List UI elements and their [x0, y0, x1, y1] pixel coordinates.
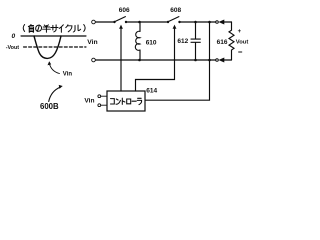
kanji 半 [43, 25, 51, 33]
svg-text:610: 610 [146, 40, 157, 47]
output terminal bottom [216, 59, 219, 62]
kana イ [59, 25, 63, 33]
svg-text:Vin: Vin [63, 72, 73, 78]
svg-text:-Vout: -Vout [6, 45, 20, 51]
bottom rail [95, 59, 215, 61]
sense wire to controller [145, 22, 210, 100]
control line to switch 606 [120, 28, 122, 91]
svg-text:Vin: Vin [87, 39, 97, 46]
svg-text:Vout: Vout [236, 39, 249, 45]
node inductor bottom [138, 59, 141, 62]
current arrow top [219, 20, 225, 25]
svg-text:616: 616 [217, 39, 228, 46]
node sense tap top [208, 21, 211, 24]
svg-text:614: 614 [146, 88, 157, 95]
svg-text:+: + [238, 29, 242, 35]
label minus [239, 51, 242, 53]
-Vout dashed level line [24, 46, 87, 48]
svg-text:600B: 600B [40, 102, 59, 111]
ロ [127, 99, 131, 104]
node sense tap bottom [208, 59, 211, 62]
ラ [137, 98, 141, 104]
switch 608 [167, 21, 169, 23]
kanji 負 [28, 25, 33, 33]
controller input terminal lower [98, 104, 101, 107]
Vin pointer arrow [49, 64, 59, 74]
node capacitor top [194, 21, 197, 24]
controller input terminal upper [98, 95, 101, 98]
resistor 616 [229, 22, 234, 60]
control line to switch 608 [136, 28, 175, 91]
paren ) [84, 25, 85, 32]
ー [132, 100, 136, 102]
kana ル [73, 25, 80, 32]
svg-text:Vin: Vin [84, 98, 94, 105]
600B arrow [49, 87, 61, 102]
controller text コントローラ [111, 98, 142, 104]
コ [111, 99, 115, 104]
node inductor top [138, 21, 141, 24]
input terminal bottom [92, 58, 96, 62]
wire to load top corner [223, 21, 232, 23]
capacitor 612 [195, 22, 197, 39]
inductor 610 [139, 22, 141, 31]
input terminal top [92, 20, 96, 24]
paren ( [23, 25, 24, 32]
zero axis line [21, 35, 86, 37]
wire ctrl input lower [101, 104, 107, 106]
wire ctrl input upper [101, 95, 107, 97]
svg-text:612: 612 [177, 38, 188, 45]
output terminal top [216, 21, 219, 24]
kana サ [51, 25, 58, 32]
node capacitor bottom [194, 59, 197, 62]
kana の [36, 25, 42, 32]
svg-text:608: 608 [170, 7, 181, 14]
controller box 614 [107, 91, 145, 111]
kana ク [66, 25, 72, 32]
ト [122, 98, 125, 104]
waveform title (負の半サイクル) [23, 25, 85, 33]
ン [116, 99, 120, 104]
wire top rail right [181, 21, 216, 23]
switch 606 [113, 21, 115, 23]
svg-text:0: 0 [12, 33, 16, 40]
current arrow bottom [219, 58, 225, 63]
Vin half-cycle curve [34, 36, 61, 58]
svg-text:606: 606 [119, 7, 130, 14]
wire top rail mid [127, 21, 167, 23]
wire top rail left [95, 21, 113, 23]
wire to load bottom corner [223, 59, 232, 61]
